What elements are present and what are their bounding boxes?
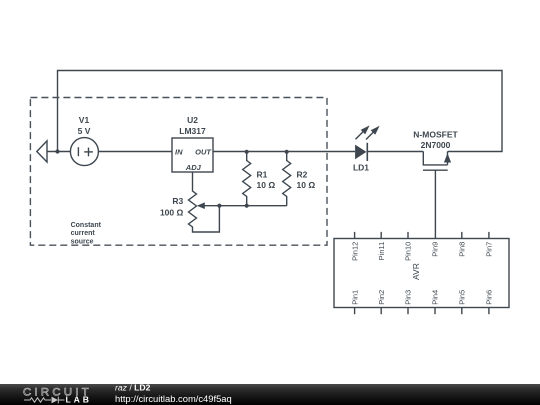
svg-text:Pin4: Pin4 — [431, 290, 440, 305]
svg-text:OUT: OUT — [195, 148, 212, 157]
svg-text:current: current — [71, 230, 96, 237]
svg-text:Pin12: Pin12 — [350, 242, 359, 261]
svg-text:IN: IN — [175, 148, 183, 157]
svg-text:R3: R3 — [172, 196, 183, 206]
svg-text:5 V: 5 V — [78, 126, 91, 136]
svg-text:http://circuitlab.com/c49f5aq: http://circuitlab.com/c49f5aq — [115, 393, 232, 404]
wire port to V1 — [47, 151, 70, 153]
AVR top pin stubs — [355, 232, 489, 239]
svg-text:Pin11: Pin11 — [377, 242, 386, 261]
svg-text:U2: U2 — [187, 115, 198, 125]
op-amp-box U2 LM317 — [172, 138, 213, 172]
wire U2 OUT to LED anode — [213, 151, 355, 153]
wire V1 to U2 IN — [98, 151, 172, 153]
LED light arrows — [356, 132, 374, 140]
svg-text:raz / LD2: raz / LD2 — [115, 382, 151, 392]
svg-text:Pin8: Pin8 — [458, 242, 467, 257]
svg-text:Pin7: Pin7 — [485, 242, 494, 257]
AVR top pin labels — [350, 242, 493, 261]
svg-text:Pin1: Pin1 — [350, 290, 359, 305]
wire LED cathode to MOSFET drain — [367, 151, 423, 153]
voltage source V1 — [70, 138, 98, 166]
wire top loop V1- to MOSFET source — [58, 71, 503, 152]
svg-text:10 Ω: 10 Ω — [257, 180, 276, 190]
svg-text:ADJ: ADJ — [185, 163, 202, 172]
svg-text:source: source — [71, 238, 94, 245]
svg-text:2N7000: 2N7000 — [421, 140, 451, 150]
LED LD1 — [355, 145, 366, 160]
transistor Q1 N-MOSFET 2N7000 — [423, 152, 448, 239]
svg-text:Constant: Constant — [71, 222, 102, 229]
AVR bottom pin labels — [350, 290, 493, 305]
R3 wiper arrow — [197, 202, 205, 209]
svg-text:R1: R1 — [257, 169, 268, 179]
svg-text:R2: R2 — [297, 169, 308, 179]
svg-text:Pin6: Pin6 — [485, 290, 494, 305]
dashed enclosure: constant current source — [30, 98, 327, 246]
svg-text:Pin2: Pin2 — [377, 290, 386, 305]
svg-text:AVR: AVR — [411, 263, 421, 280]
svg-text:V1: V1 — [79, 115, 90, 125]
svg-text:100 Ω: 100 Ω — [160, 208, 184, 218]
AVR bottom pin stubs — [355, 308, 489, 315]
svg-text:LAB: LAB — [66, 395, 92, 405]
resistor R2 — [283, 152, 291, 206]
port flag P1 — [37, 141, 47, 162]
label V1 value — [78, 115, 91, 136]
potentiometer R3 — [189, 172, 220, 232]
IC U3 AVR — [334, 239, 509, 308]
logo resistor-diode glyph — [24, 397, 65, 404]
svg-text:10 Ω: 10 Ω — [297, 180, 316, 190]
node junction dots — [55, 149, 288, 207]
svg-text:LM317: LM317 — [179, 126, 206, 136]
svg-text:Pin5: Pin5 — [458, 290, 467, 305]
svg-text:Pin9: Pin9 — [431, 242, 440, 257]
svg-text:LD1: LD1 — [353, 163, 369, 173]
svg-text:N-MOSFET: N-MOSFET — [413, 130, 458, 140]
wire bottom rail (wiper to R1/R2 bottoms) — [204, 205, 287, 207]
svg-text:Pin3: Pin3 — [404, 290, 413, 305]
svg-text:Pin10: Pin10 — [404, 242, 413, 261]
resistor R1 — [243, 152, 251, 206]
